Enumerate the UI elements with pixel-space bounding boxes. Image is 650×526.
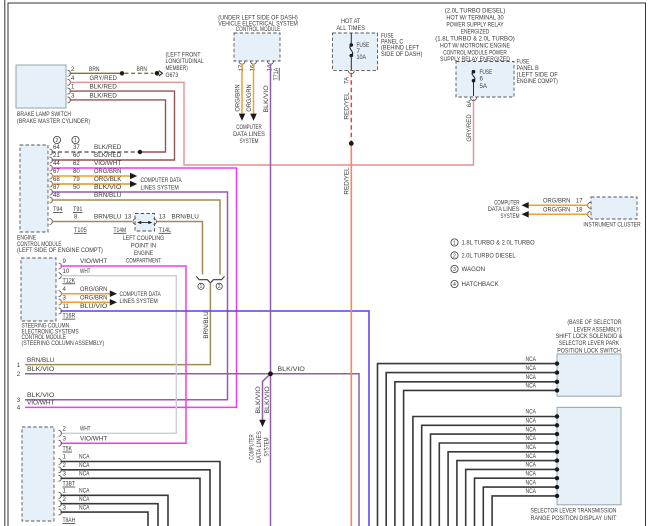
svg-text:2: 2 — [218, 284, 221, 290]
display unit wire 6 NCA — [457, 453, 559, 526]
svg-text:10A: 10A — [357, 54, 367, 61]
svg-text:3: 3 — [453, 267, 456, 273]
svg-text:T91: T91 — [73, 206, 83, 213]
svg-text:BLK/RED: BLK/RED — [94, 144, 122, 151]
wire BRN dashed to ground — [125, 66, 154, 74]
svg-text:2: 2 — [71, 66, 75, 73]
steering column electronic systems control module — [21, 258, 56, 321]
svg-text:1: 1 — [17, 362, 21, 369]
svg-text:NCA: NCA — [79, 504, 90, 511]
ECM pin 87/50 BLK/VIO to left wire 3 — [25, 184, 228, 400]
svg-text:BLU/VIO: BLU/VIO — [80, 303, 108, 310]
svg-text:1: 1 — [63, 488, 67, 495]
svg-text:NCA: NCA — [79, 488, 90, 495]
bottom connector box — [22, 427, 54, 521]
computer data lines system rotated label — [249, 431, 271, 463]
svg-text:4: 4 — [63, 286, 67, 293]
coupling caption — [123, 235, 165, 265]
svg-text:RED/YEL: RED/YEL — [344, 167, 351, 195]
instrument cluster — [591, 197, 637, 219]
svg-text:64: 64 — [53, 144, 60, 151]
SCM pin 11 BLU/VIO — [59, 303, 370, 526]
wire BLK/RED pin 3 to ECM pin 64/37 — [68, 92, 166, 152]
T5K pin 2 WHT — [59, 426, 91, 437]
variant circle 1 — [198, 283, 204, 289]
svg-text:NCA: NCA — [526, 383, 537, 390]
wire BRN pin 2 — [68, 66, 123, 77]
svg-text:BRN/BLU: BRN/BLU — [94, 192, 121, 199]
svg-text:NCA: NCA — [526, 426, 537, 433]
svg-text:BLK/RED: BLK/RED — [94, 152, 122, 159]
svg-text:NCA: NCA — [526, 418, 537, 425]
svg-text:T5K: T5K — [63, 446, 73, 453]
svg-text:13: 13 — [125, 214, 132, 221]
svg-text:NCA: NCA — [526, 488, 537, 495]
svg-text:T8AH: T8AH — [63, 517, 76, 524]
legend note 1 — [451, 239, 535, 247]
computer data lines system label cluster — [488, 200, 520, 220]
svg-text:CONTROL MODULE: CONTROL MODULE — [236, 26, 281, 33]
engine control module — [20, 145, 48, 232]
svg-text:SHIFT LOCK SOLENOID &: SHIFT LOCK SOLENOID & — [556, 333, 623, 340]
svg-text:(BASE OF SELECTOR: (BASE OF SELECTOR — [567, 319, 622, 326]
svg-text:SELECTOR LEVER TRANSMISSION: SELECTOR LEVER TRANSMISSION — [531, 508, 617, 515]
svg-text:POWER SUPPLY RELAY: POWER SUPPLY RELAY — [446, 22, 503, 29]
fuse panel B box — [456, 62, 514, 98]
junction RED/YEL — [349, 141, 354, 146]
svg-text:NCA: NCA — [79, 454, 90, 461]
wire BLK/RED pin 1 to ECM pin 21/60 — [52, 84, 175, 160]
shift lock wire 2 NCA — [386, 365, 559, 526]
svg-text:60: 60 — [73, 152, 80, 159]
VESCM pin 16 ORG/GRN computer data — [246, 61, 257, 121]
svg-text:44: 44 — [53, 160, 60, 167]
legend note 4 — [451, 280, 499, 288]
VESCM pin 14 BLK/VIO main vertical — [263, 61, 274, 526]
SCM pin 4 ORG/GRN computer data — [59, 286, 118, 297]
svg-text:NCA: NCA — [79, 471, 90, 478]
ECM pin 8 BRN/BLU to coupling T14M — [50, 214, 133, 225]
ECM caption — [17, 235, 103, 254]
fuse B exit bracket — [471, 98, 477, 101]
svg-text:BLK/VIO: BLK/VIO — [278, 366, 306, 373]
ECM pin 48 BRN/BLU — [50, 192, 221, 274]
shift lock wire 1 NCA — [378, 356, 560, 526]
svg-text:VIO/WHT: VIO/WHT — [80, 435, 108, 442]
svg-text:SELECTOR LEVER PARK: SELECTOR LEVER PARK — [559, 340, 619, 347]
svg-text:3: 3 — [63, 471, 67, 478]
svg-text:COMPUTER DATA: COMPUTER DATA — [120, 291, 162, 298]
svg-text:NCA: NCA — [526, 462, 537, 469]
svg-text:50: 50 — [73, 184, 80, 191]
svg-text:1.8L TURBO & 2.0L TURBO: 1.8L TURBO & 2.0L TURBO — [462, 240, 535, 247]
fuse panel B caption — [517, 59, 559, 86]
svg-text:G673: G673 — [166, 72, 179, 79]
svg-text:2.0L TURBO DIESEL: 2.0L TURBO DIESEL — [462, 253, 517, 260]
svg-text:4: 4 — [71, 75, 75, 82]
svg-text:2: 2 — [63, 426, 67, 433]
left coupling point T14M T14L — [133, 214, 157, 232]
svg-text:17: 17 — [576, 198, 583, 205]
svg-text:BLK/VIO: BLK/VIO — [94, 184, 122, 191]
cluster pin 18 ORG/GRN computer data — [522, 207, 591, 218]
T8AH group wire 3 NCA — [59, 504, 149, 526]
display unit caption — [531, 508, 617, 522]
svg-text:BRN: BRN — [137, 66, 148, 73]
SCM pin 3 ORG/BRN computer data — [59, 295, 118, 306]
brake lamp switch caption — [17, 111, 90, 125]
display unit wire 9 NCA — [483, 479, 559, 526]
svg-text:ORG/BRN: ORG/BRN — [235, 84, 242, 111]
computer data lines system label SCM — [120, 291, 162, 305]
T8AH group wire 1 NCA — [59, 488, 169, 526]
svg-text:2: 2 — [17, 371, 21, 378]
display unit wire 2 NCA — [422, 418, 560, 526]
T3BT group wire 3 NCA — [59, 471, 201, 526]
junction on BLK/RED — [138, 150, 142, 154]
svg-text:BLK/VIO: BLK/VIO — [27, 392, 55, 399]
ground G673 left front longitudinal member — [155, 51, 205, 79]
svg-text:2: 2 — [453, 253, 456, 259]
svg-text:1: 1 — [63, 454, 67, 461]
svg-text:48: 48 — [53, 192, 60, 199]
svg-text:NCA: NCA — [526, 409, 537, 416]
svg-text:NCA: NCA — [526, 453, 537, 460]
svg-text:13: 13 — [159, 214, 166, 221]
svg-text:BLK/VIO: BLK/VIO — [27, 366, 55, 373]
svg-text:VIO/WHT: VIO/WHT — [80, 258, 108, 265]
shift lock wire 4 NCA — [404, 383, 560, 526]
left wire 3 labels — [17, 392, 55, 404]
left wire 1 labels — [17, 357, 54, 369]
svg-text:10: 10 — [63, 268, 70, 275]
BLK/VIO branch to computer data lines — [255, 371, 273, 427]
svg-text:3: 3 — [63, 504, 67, 511]
svg-text:BLK/RED: BLK/RED — [90, 92, 118, 99]
svg-text:(1.8L TURBO & 2.0L TURBO): (1.8L TURBO & 2.0L TURBO) — [435, 35, 515, 42]
svg-text:SYSTEM: SYSTEM — [500, 213, 519, 220]
svg-text:COMPARTMENT: COMPARTMENT — [126, 257, 161, 264]
svg-text:2: 2 — [63, 462, 67, 469]
svg-text:ENGINE: ENGINE — [134, 250, 153, 257]
display unit wire 10 NCA — [492, 488, 559, 526]
svg-text:ORG/BRN: ORG/BRN — [543, 198, 570, 205]
svg-text:79: 79 — [73, 176, 80, 183]
svg-text:7A: 7A — [344, 76, 351, 84]
ECM pin 67/80 ORG/BRN computer data — [50, 168, 138, 179]
svg-text:BRN/BLU: BRN/BLU — [203, 311, 210, 338]
wire RED/YEL solid — [350, 143, 352, 526]
svg-text:68: 68 — [53, 176, 60, 183]
svg-text:3: 3 — [17, 397, 21, 404]
legend note 3 — [451, 265, 485, 273]
svg-text:8: 8 — [74, 214, 78, 221]
svg-text:NCA: NCA — [526, 470, 537, 477]
svg-text:DATA LINES: DATA LINES — [233, 131, 265, 138]
svg-text:POSITION LOCK SWITCH: POSITION LOCK SWITCH — [557, 347, 621, 354]
ECM pin 44/62 VIO/WHT to left wire 4 — [25, 160, 237, 407]
svg-text:80: 80 — [73, 168, 80, 175]
fuse 7 10A — [350, 33, 370, 70]
svg-text:SYSTEM: SYSTEM — [239, 138, 258, 145]
svg-text:MEMBER): MEMBER) — [166, 65, 188, 72]
T5K pin 3 VIO/WHT — [59, 435, 108, 446]
variant circle 1 column — [72, 136, 79, 143]
T3BT group wire 2 NCA — [59, 462, 211, 526]
svg-text:ORG/GRN: ORG/GRN — [80, 286, 107, 293]
selector lever transmission range position display unit — [557, 407, 621, 504]
svg-text:WAGON: WAGON — [462, 266, 485, 273]
svg-text:BRN/BLU: BRN/BLU — [27, 357, 54, 364]
svg-text:ALL TIMES: ALL TIMES — [336, 25, 365, 32]
svg-text:SYSTEM: SYSTEM — [264, 437, 271, 456]
svg-text:(2.0L TURBO DIESEL): (2.0L TURBO DIESEL) — [445, 7, 505, 14]
svg-text:(STEERING COLUMN ASSEMBLY): (STEERING COLUMN ASSEMBLY) — [22, 340, 105, 347]
svg-text:T14M: T14M — [114, 227, 127, 234]
computer data lines system label VESCM — [233, 124, 265, 145]
fuse panel C box — [333, 33, 378, 70]
svg-text:NCA: NCA — [526, 374, 537, 381]
left wire 2 BLK/VIO — [17, 366, 359, 526]
svg-text:BLK/VIO: BLK/VIO — [263, 85, 270, 113]
display unit wire 7 NCA — [466, 462, 560, 526]
svg-text:RANGE POSITION DISPLAY UNIT: RANGE POSITION DISPLAY UNIT — [531, 515, 617, 522]
T3BT group wire 1 NCA — [59, 454, 221, 526]
svg-text:ORG/BRN: ORG/BRN — [80, 295, 107, 302]
svg-text:1: 1 — [453, 240, 456, 246]
svg-text:COMPUTER: COMPUTER — [236, 124, 262, 131]
svg-text:VIO/WHT: VIO/WHT — [94, 160, 122, 167]
wire RED/YEL dashed — [350, 73, 352, 144]
svg-text:T94: T94 — [53, 206, 63, 213]
svg-text:T105: T105 — [74, 227, 87, 234]
SCM pin 9 VIO/WHT to T5K pin 3 — [59, 258, 187, 443]
svg-text:(LEFT SIDE OF ENGINE COMPT): (LEFT SIDE OF ENGINE COMPT) — [17, 247, 103, 254]
svg-text:NCA: NCA — [79, 462, 90, 469]
svg-text:WHT: WHT — [80, 268, 91, 275]
shift lock caption — [556, 319, 623, 354]
svg-text:37: 37 — [73, 144, 80, 151]
display unit wire 1 NCA — [413, 409, 559, 526]
svg-text:NCA: NCA — [526, 356, 537, 363]
display unit wire 4 NCA — [439, 435, 559, 526]
svg-text:BLK/RED: BLK/RED — [90, 84, 118, 91]
svg-text:4: 4 — [453, 282, 456, 288]
svg-text:LINES SYSTEM: LINES SYSTEM — [141, 184, 179, 191]
svg-text:5A: 5A — [480, 83, 488, 90]
svg-text:(BRAKE MASTER CYLINDER): (BRAKE MASTER CYLINDER) — [17, 118, 90, 125]
wire BRN/BLU from coupling T14L — [157, 214, 203, 275]
VESCM caption — [218, 15, 298, 34]
svg-text:INSTRUMENT CLUSTER: INSTRUMENT CLUSTER — [583, 222, 641, 229]
vehicle electrical system control module — [234, 33, 280, 61]
brace joining BRN/BLU variants — [196, 276, 224, 283]
svg-text:ORG/BRN: ORG/BRN — [94, 168, 121, 175]
cluster pin 17 ORG/BRN computer data — [522, 198, 591, 209]
svg-text:LEFT COUPLING: LEFT COUPLING — [123, 235, 165, 242]
svg-text:NCA: NCA — [526, 479, 537, 486]
svg-text:COMPUTER DATA: COMPUTER DATA — [141, 177, 183, 184]
svg-text:HOT W/ TERMINAL 30: HOT W/ TERMINAL 30 — [446, 15, 504, 22]
svg-text:HATCHBACK: HATCHBACK — [462, 281, 499, 288]
svg-text:SIDE OF DASH): SIDE OF DASH) — [381, 51, 422, 58]
brake lamp switch — [16, 65, 66, 108]
shift lock wire 3 NCA — [395, 374, 559, 526]
VESCM pin 17 ORG/BRN computer data — [235, 61, 246, 121]
svg-text:BRN/BLU: BRN/BLU — [172, 214, 199, 221]
svg-text:9: 9 — [63, 258, 67, 265]
ECM pin 64/37 BLK/RED dashed — [50, 144, 139, 155]
svg-text:GRY/RED: GRY/RED — [466, 114, 473, 142]
svg-text:2: 2 — [56, 138, 59, 144]
svg-text:WHT: WHT — [80, 426, 91, 433]
svg-text:RED/YEL: RED/YEL — [344, 92, 351, 120]
svg-text:NCA: NCA — [526, 444, 537, 451]
shift lock solenoid and park position lock switch — [557, 354, 621, 396]
svg-text:T12K: T12K — [63, 277, 76, 284]
svg-text:1: 1 — [74, 138, 77, 144]
display unit wire 3 NCA — [431, 426, 560, 526]
svg-text:GRY/RED: GRY/RED — [90, 75, 118, 82]
variant circle 2 column — [53, 136, 60, 143]
svg-text:3: 3 — [71, 92, 75, 99]
left wire 4 labels — [17, 400, 55, 412]
svg-text:DATA LINES: DATA LINES — [488, 206, 520, 213]
svg-text:NCA: NCA — [79, 496, 90, 503]
svg-text:67: 67 — [53, 168, 60, 175]
wire GRY/RED pin 4 to fuse panel B — [68, 75, 474, 165]
junction on BRN — [120, 71, 124, 75]
svg-text:18: 18 — [576, 207, 583, 214]
svg-text:62: 62 — [73, 160, 80, 167]
fuse 6 5A — [472, 69, 493, 96]
svg-text:1: 1 — [200, 284, 203, 290]
svg-text:T16R: T16R — [63, 313, 76, 320]
svg-text:3: 3 — [63, 295, 67, 302]
junction BLK/VIO — [268, 372, 272, 376]
svg-text:NCA: NCA — [526, 365, 537, 372]
display unit wire 5 NCA — [448, 444, 559, 526]
SCM pin 10 WHT to T5K pin 2 — [59, 268, 177, 433]
svg-text:3: 3 — [63, 435, 67, 442]
hot at all times label — [336, 18, 365, 32]
svg-text:ORG/BLK: ORG/BLK — [94, 176, 121, 183]
fuse C exit bracket — [348, 71, 354, 74]
legend note 2 — [451, 252, 516, 260]
svg-text:ORG/GRN: ORG/GRN — [246, 84, 253, 111]
display unit wire 8 NCA — [475, 470, 560, 526]
svg-text:COMPUTER: COMPUTER — [249, 434, 256, 460]
svg-text:NCA: NCA — [526, 435, 537, 442]
svg-text:11: 11 — [63, 303, 70, 310]
svg-text:21: 21 — [53, 152, 60, 159]
T8AH group wire 2 NCA — [59, 496, 159, 526]
page edge line — [4, 0, 6, 526]
wire BRN/BLU merged to left wire 1 — [25, 283, 210, 365]
svg-text:VIO/WHT: VIO/WHT — [27, 400, 55, 407]
svg-text:T71A: T71A — [273, 67, 280, 81]
svg-text:BLK/VIO: BLK/VIO — [255, 386, 262, 414]
svg-text:BLK/VIO: BLK/VIO — [264, 386, 271, 414]
ECM pin 68/79 ORG/BLK computer data — [50, 176, 138, 187]
svg-text:POINT IN: POINT IN — [131, 242, 156, 249]
fuse panel C caption — [381, 32, 422, 58]
svg-text:87: 87 — [53, 184, 60, 191]
svg-text:4: 4 — [17, 405, 21, 412]
ECM pin 21/60 BLK/RED — [50, 152, 122, 163]
svg-text:BRN: BRN — [89, 66, 100, 73]
steering column caption — [22, 323, 105, 347]
variant circle 2 — [216, 283, 222, 289]
svg-text:1: 1 — [71, 84, 75, 91]
svg-text:DATA LINES: DATA LINES — [256, 431, 263, 463]
svg-text:ENGINE COMPT): ENGINE COMPT) — [517, 78, 558, 85]
computer data lines system label ECM — [141, 177, 183, 191]
svg-text:LINES SYSTEM: LINES SYSTEM — [120, 298, 158, 305]
fuse panel B condition caption — [435, 7, 515, 63]
svg-text:2: 2 — [63, 496, 67, 503]
svg-text:T14L: T14L — [159, 227, 172, 234]
svg-text:BRN/BLU: BRN/BLU — [94, 214, 121, 221]
svg-text:ORG/GRN: ORG/GRN — [543, 207, 570, 214]
